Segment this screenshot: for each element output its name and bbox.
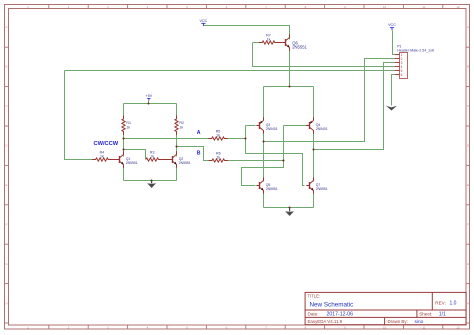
wire R5 to H-bridge — [225, 138, 246, 140]
svg-text:2N5551: 2N5551 — [126, 161, 138, 165]
svg-text:B: B — [467, 65, 469, 69]
junction +5V rail — [147, 102, 149, 104]
junction bridge ground — [288, 206, 290, 208]
svg-text:Date:: Date: — [308, 311, 319, 316]
wire rail to Q3 emitter — [263, 87, 265, 121]
svg-text:VCC: VCC — [200, 19, 208, 23]
svg-text:10: 10 — [383, 5, 387, 9]
wire Q3 collector to Q5 collector — [263, 131, 265, 182]
ground (flip-flop) — [147, 183, 156, 188]
wire node B to Q5 base — [242, 126, 284, 186]
junction node A at R1 — [122, 137, 124, 139]
wire +5V to R1 — [123, 104, 125, 119]
wire R7 lead left — [253, 42, 262, 44]
resistor R7 — [259, 33, 283, 44]
wire Q5 emitter to ground rail — [263, 191, 265, 208]
svg-text:2N5401: 2N5401 — [266, 127, 278, 131]
wire left output to P1 pin 2 — [264, 59, 395, 142]
svg-text:1/1: 1/1 — [439, 311, 446, 317]
svg-text:Drawn By:: Drawn By: — [388, 319, 408, 324]
svg-text:1k: 1k — [216, 134, 220, 138]
svg-text:TITLE:: TITLE: — [308, 294, 321, 299]
svg-text:12: 12 — [456, 5, 460, 9]
junction right output — [312, 148, 314, 150]
svg-text:New Schematic: New Schematic — [310, 302, 354, 309]
wire Q7 emitter to ground rail — [313, 191, 315, 208]
junction node B at bridge — [282, 159, 284, 161]
wire bridge top rail — [264, 86, 314, 88]
transistor Q6 (2N5551) NPN — [282, 34, 307, 50]
wire R2 to Q2 collector — [176, 132, 178, 157]
svg-text:2N5551: 2N5551 — [316, 187, 328, 191]
wire VCC to Q6 collector — [204, 26, 290, 40]
svg-text:A: A — [5, 25, 7, 29]
junction node A at bridge — [244, 137, 246, 139]
svg-text:2N5551: 2N5551 — [179, 161, 191, 165]
svg-text:E: E — [467, 183, 469, 187]
svg-text:11: 11 — [422, 326, 425, 330]
junction node B at Q2 collector — [175, 145, 177, 147]
ground stem (bridge) — [289, 208, 291, 212]
svg-text:12: 12 — [456, 326, 460, 330]
svg-text:Header-Male-2.54_1x6: Header-Male-2.54_1x6 — [397, 48, 434, 52]
transistor Q7 (2N5551) NPN — [306, 177, 327, 193]
svg-text:H: H — [5, 302, 7, 306]
transistor Q4 (2N5401) PNP — [306, 117, 327, 133]
svg-text:6: 6 — [401, 73, 403, 77]
svg-text:A: A — [197, 130, 201, 136]
svg-text:F: F — [467, 223, 469, 227]
transistor Q2 (2N5551) NPN — [169, 151, 190, 167]
junction Q1 collector / R3 — [122, 148, 124, 150]
svg-text:C: C — [5, 104, 8, 108]
wire Q1 emitter to ground rail — [123, 166, 125, 181]
title block — [305, 292, 466, 325]
svg-text:2N5551: 2N5551 — [266, 187, 278, 191]
svg-text:1k: 1k — [126, 125, 130, 129]
wire rail to Q4 emitter — [313, 87, 315, 121]
svg-text:10: 10 — [383, 326, 387, 330]
wire Q2 emitter to ground rail — [176, 166, 178, 181]
ground stem (flip-flop) — [151, 180, 153, 183]
power flag +5V — [146, 94, 153, 101]
svg-text:11: 11 — [422, 5, 425, 9]
wire R7 to P1 pin 4 — [253, 43, 395, 67]
svg-text:1k: 1k — [179, 125, 183, 129]
svg-text:CW/CCW: CW/CCW — [94, 141, 119, 147]
svg-text:2N5551: 2N5551 — [292, 45, 307, 50]
wire flip-flop ground rail — [124, 180, 177, 182]
wire +5V stub — [148, 101, 150, 104]
junction bridge top rail — [288, 85, 290, 87]
wire Q4 collector to Q7 collector — [313, 131, 315, 182]
junction flip-flop ground — [150, 179, 152, 181]
svg-text:1k: 1k — [216, 156, 220, 160]
wire Q6 emitter to bridge rail — [289, 49, 291, 87]
wire Q1 collector to R3 — [124, 150, 146, 160]
resistor R4 — [92, 150, 117, 161]
wire VCC to P1 pin 1 — [393, 31, 395, 55]
resistor R2 — [175, 116, 184, 135]
wire right output to P1 pin 3 — [314, 63, 395, 150]
svg-text:VCC: VCC — [388, 23, 396, 27]
wire node B to Q4 base — [284, 125, 307, 127]
resistor R5 — [208, 129, 227, 140]
transistor Q3 (2N5401) PNP — [256, 117, 277, 133]
wire CW/CCW input to R4 — [65, 71, 96, 160]
wire node A to Q7 base — [246, 126, 305, 186]
svg-text:1k: 1k — [150, 155, 154, 159]
junction left output — [262, 140, 264, 142]
svg-text:D: D — [5, 144, 8, 148]
svg-text:REV:: REV: — [435, 301, 446, 306]
resistor R3 — [146, 150, 172, 161]
svg-text:1k: 1k — [100, 155, 104, 159]
svg-text:G: G — [5, 262, 8, 266]
resistor R1 — [122, 116, 131, 135]
svg-text:+5V: +5V — [146, 94, 153, 98]
resistor R6 — [209, 151, 228, 162]
wire R6 to H-bridge — [225, 160, 284, 162]
power flag VCC — [388, 23, 396, 30]
svg-text:EasyEDA V4.11.9: EasyEDA V4.11.9 — [308, 319, 343, 324]
wire node B from Q2 collector to R6 — [177, 147, 213, 161]
svg-text:E: E — [5, 183, 7, 187]
svg-text:F: F — [6, 223, 8, 227]
transistor Q5 (2N5551) NPN — [256, 177, 277, 193]
transistor Q1 (2N5551) NPN — [116, 151, 137, 167]
power flag VCC — [200, 19, 208, 26]
wire bridge ground rail — [264, 207, 314, 209]
svg-text:R2: R2 — [179, 121, 184, 125]
svg-text:B: B — [197, 150, 201, 156]
svg-text:1k: 1k — [267, 38, 271, 42]
wire R1 to Q1 collector — [123, 132, 125, 157]
svg-text:H: H — [467, 302, 469, 306]
svg-text:Sheet:: Sheet: — [419, 311, 432, 316]
connector P1 Header-Male-2.54_1x6 — [395, 44, 434, 78]
svg-text:1.0: 1.0 — [450, 301, 457, 307]
svg-text:2N5401: 2N5401 — [316, 127, 328, 131]
wire node A to Q3 base — [246, 125, 256, 127]
svg-text:2017-12-06: 2017-12-06 — [327, 311, 354, 317]
ground (bridge) — [285, 211, 294, 216]
ground (connector) — [386, 106, 397, 111]
svg-text:R1: R1 — [126, 121, 131, 125]
svg-text:A: A — [467, 25, 469, 29]
wire +5V to R2 — [176, 104, 178, 119]
wire P1 pin 6 to ground — [392, 75, 395, 106]
wire CW/CCW to P1 pin 5 — [65, 70, 395, 72]
wire node A from R1 to R5 — [124, 138, 212, 140]
wire +5V top rail — [124, 103, 177, 105]
svg-text:sino: sino — [415, 319, 424, 325]
svg-text:B: B — [5, 65, 7, 69]
